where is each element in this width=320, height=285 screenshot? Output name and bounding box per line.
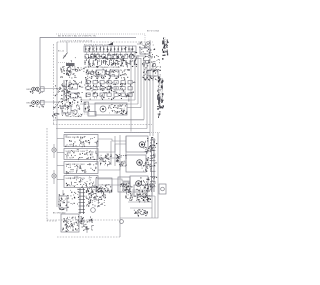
wire bus V1 xyxy=(130,48,132,132)
wire bottom rail dashed xyxy=(57,236,120,238)
surface element E3 xyxy=(123,176,153,193)
svg-text:BK16: BK16 xyxy=(27,102,32,104)
wire dotted top rail xyxy=(56,34,145,47)
surface element E2 xyxy=(126,155,152,172)
infinite switch S2 xyxy=(64,149,98,161)
infinite switch S3 xyxy=(64,162,98,175)
svg-text:P2-1 P2-4 P2-7 P2-10 P2-13: P2-1 P2-4 P2-7 P2-10 P2-13 xyxy=(84,44,113,46)
latch assembly cluster xyxy=(52,80,83,118)
wire bus V8 xyxy=(152,64,154,136)
supply plug J1 xyxy=(27,85,71,97)
node R2 end xyxy=(157,97,161,100)
oven section top edge xyxy=(64,132,150,134)
wire bus V7 xyxy=(149,40,151,136)
wire bus stub a xyxy=(136,55,144,57)
main harness connector P3 xyxy=(70,186,106,214)
label column R2 xyxy=(157,76,161,118)
wire dashed lower-left frame xyxy=(47,128,57,221)
wire switch to element 4 xyxy=(98,166,126,170)
wire mid drop xyxy=(119,135,121,218)
svg-text:L1 H2 P: L1 H2 P xyxy=(66,145,74,147)
junction row under E3 xyxy=(137,193,140,196)
wire dotted lower top xyxy=(130,132,160,134)
wire right frame xyxy=(120,133,158,219)
wire S1 feed xyxy=(57,138,64,140)
bake relay cluster xyxy=(97,141,112,166)
wire bus V3 xyxy=(80,55,138,104)
indicator lamp DS2 xyxy=(52,170,56,184)
svg-text:ELECTRONIC RANGE CONTROL: ELECTRONIC RANGE CONTROL xyxy=(85,66,121,69)
transformer T1 xyxy=(58,42,85,79)
warming drawer element xyxy=(96,178,112,193)
fuse F1 xyxy=(58,190,69,211)
wire dashed console bottom xyxy=(53,124,152,126)
wire dashed left drop xyxy=(53,44,55,124)
junction box on rail xyxy=(88,112,96,117)
svg-text:SURF SW RR 240V: SURF SW RR 240V xyxy=(66,151,86,153)
drawer thermostat xyxy=(118,177,130,194)
wire switch to element 6 xyxy=(98,184,130,185)
svg-text:1 2 3 4 5 6 7 8 9 10 11 12 13: 1 2 3 4 5 6 7 8 9 10 11 12 13 xyxy=(60,40,93,42)
wire bus stub b xyxy=(136,58,141,60)
svg-text:BK W R OR Y BU GY V BR PK TN: BK W R OR Y BU GY V BR PK TN xyxy=(58,35,96,37)
oven lamp door switch cluster xyxy=(124,185,152,217)
ground xyxy=(85,226,88,232)
wire main left drop xyxy=(56,120,58,207)
svg-text:SURF SW LF 240V: SURF SW LF 240V xyxy=(66,164,86,166)
terminal block TB1 xyxy=(142,55,161,81)
svg-text:L1 H2 P: L1 H2 P xyxy=(66,186,74,188)
wiring junction field xyxy=(85,80,136,102)
wire J1 feed xyxy=(40,88,62,90)
wire bottom right drop xyxy=(119,218,121,237)
wire dotted rail 114 xyxy=(53,113,90,115)
splice blob xyxy=(108,42,113,45)
ground terminal block xyxy=(53,213,94,233)
infinite switch S4 xyxy=(64,176,98,189)
wire bus V2 xyxy=(80,52,135,100)
label column R1b xyxy=(166,39,169,55)
wire switch to element 5 xyxy=(98,179,130,181)
wire S4 feed xyxy=(57,179,64,181)
broil relay cluster xyxy=(115,136,127,167)
wire bus V5 xyxy=(57,60,144,120)
label column R1 xyxy=(162,37,166,60)
wire bus V4 xyxy=(140,58,142,108)
label column R2b xyxy=(161,78,165,109)
relay bank K1-K9 xyxy=(85,52,138,61)
svg-text:SURF SW LR 240V: SURF SW LR 240V xyxy=(66,178,86,180)
svg-text:L1 H2 P: L1 H2 P xyxy=(66,172,74,174)
wire left vertical xyxy=(56,42,58,120)
console boundary box xyxy=(40,38,136,88)
svg-text:BU-14: BU-14 xyxy=(58,51,64,53)
wire dashed top rail 2 xyxy=(57,41,153,43)
wire lr v1 xyxy=(151,185,153,218)
wire rail mid xyxy=(53,119,144,121)
wire bottom dashed xyxy=(47,219,120,221)
wire lr h2 xyxy=(130,207,152,209)
surface element E1 xyxy=(126,136,154,154)
receptacle N1 xyxy=(159,184,166,194)
node corner lamp xyxy=(120,220,124,224)
wire lr h0a xyxy=(132,189,152,191)
connector P2 terminal strip xyxy=(84,46,137,53)
infinite switch S1 xyxy=(64,135,98,148)
svg-text:SURF SW RF 240V: SURF SW RF 240V xyxy=(66,137,86,139)
supply plug J2 xyxy=(27,99,72,110)
svg-text:BK GROUND: BK GROUND xyxy=(53,213,66,215)
svg-text:BK W 18GA: BK W 18GA xyxy=(147,30,160,33)
wire motor to bus xyxy=(127,107,141,109)
wire bus V6 xyxy=(56,62,147,129)
svg-text:BK16: BK16 xyxy=(27,89,32,91)
wire lr v2 xyxy=(154,196,156,218)
relay K12 xyxy=(137,42,155,56)
indicator lamp DS1 xyxy=(52,144,56,158)
wire S3 feed xyxy=(57,165,64,167)
wire switch to element 3 xyxy=(98,158,126,162)
clock pin header xyxy=(85,60,138,69)
wire switch to element 1 xyxy=(98,139,126,141)
wire switch to element 2 xyxy=(98,144,126,152)
wire J2 feed xyxy=(40,101,62,103)
svg-text:L1 H2 P: L1 H2 P xyxy=(66,158,74,160)
element terminal chain xyxy=(150,138,158,192)
oven relays K10 K11 xyxy=(85,69,130,82)
door latch motor M1 xyxy=(84,102,128,115)
wire lr h1 xyxy=(128,201,152,203)
wire S2 feed xyxy=(57,152,64,154)
wire lr h0b xyxy=(130,195,155,197)
